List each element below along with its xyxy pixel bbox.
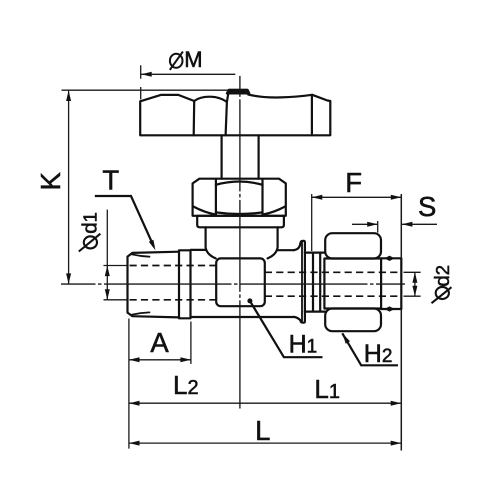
- svg-text:S: S: [418, 191, 436, 222]
- bonnet skirt: [206, 227, 278, 258]
- label phid1 diameter symbol: [79, 234, 101, 252]
- leader H2: [342, 333, 398, 365]
- arrowhead phid2 top: [412, 272, 417, 283]
- dimension L line: [129, 442, 401, 444]
- arrowhead K top: [66, 91, 71, 102]
- dimension A line: [129, 359, 191, 361]
- label phid1 text: [78, 212, 101, 234]
- leader H1 dot: [247, 298, 252, 303]
- svg-text:H2: H2: [364, 340, 393, 368]
- arrowhead A right: [180, 357, 191, 362]
- arrowhead S right: [402, 222, 413, 227]
- flange face line: [301, 243, 303, 322]
- compression nut bottom lobe: [325, 309, 381, 332]
- center square (seat): [216, 258, 265, 306]
- vertical centerline: [239, 76, 241, 301]
- arrowhead phiM: [141, 72, 152, 77]
- svg-text:1: 1: [79, 212, 100, 222]
- left thread collar: [179, 250, 191, 318]
- arrowhead S left: [367, 222, 378, 227]
- svg-text:K: K: [35, 171, 66, 190]
- right extension line: [400, 194, 402, 451]
- leader T: [95, 196, 154, 247]
- dimension phiM extension line: [140, 65, 142, 99]
- svg-text:2: 2: [432, 265, 453, 275]
- arrowhead L1 right: [391, 401, 402, 406]
- arrowhead L right: [391, 441, 402, 446]
- packing nut chamfer arcs: [193, 182, 285, 215]
- arrowhead F right: [391, 195, 402, 200]
- dimension S lines: [352, 223, 437, 225]
- svg-text:F: F: [345, 167, 362, 198]
- dimension phid2 extension lines: [404, 272, 421, 296]
- dimension F line: [312, 196, 402, 198]
- svg-text:L1: L1: [314, 374, 340, 404]
- male taper thread: [128, 252, 180, 318]
- dimension F extension line: [311, 194, 313, 251]
- threaded neck between body and nut: [305, 253, 326, 312]
- handle outline: [140, 90, 330, 135]
- arrowhead L2 left: [129, 401, 140, 406]
- dimension S extension line: [377, 221, 379, 233]
- horizontal centerline: [61, 283, 405, 285]
- arrowhead A left: [129, 357, 140, 362]
- arrowhead phid1 bottom: [105, 289, 110, 300]
- handle facet lines: [194, 95, 312, 135]
- thread runout arcs: [132, 254, 150, 314]
- body top/bottom edges: [191, 250, 294, 317]
- svg-text:A: A: [150, 327, 169, 358]
- compression nut mid band: [324, 259, 381, 309]
- dimension phid2 line: [414, 272, 416, 296]
- svg-text:L: L: [255, 415, 270, 446]
- hidden thread root line upper: [130, 265, 217, 267]
- compression nut top lobe: [325, 233, 381, 258]
- dimension L2/L1 line: [129, 402, 401, 404]
- arrowhead K bottom: [66, 273, 71, 284]
- washer: [197, 216, 284, 228]
- arrowhead L left: [129, 441, 140, 446]
- hidden bore line lower: [265, 295, 401, 297]
- tube stub: [381, 258, 401, 309]
- svg-text:d: d: [78, 222, 101, 233]
- arrowhead phid1 top: [105, 266, 110, 277]
- hidden thread root line lower: [130, 299, 217, 301]
- dimension K extension line: [62, 89, 229, 91]
- arrowhead F left: [312, 195, 323, 200]
- label phid2 diameter symbol: [432, 287, 452, 303]
- dimension phid1 extension lines: [104, 266, 128, 300]
- dimension K line: [68, 91, 70, 284]
- svg-text:T: T: [102, 164, 119, 195]
- svg-text:H1: H1: [289, 331, 318, 359]
- hidden bore line upper: [265, 271, 401, 273]
- arrowhead leader T: [149, 240, 156, 251]
- body right flange: [294, 241, 305, 323]
- handle boss: [227, 90, 249, 94]
- leader H1: [250, 301, 323, 357]
- label phid2 text: [431, 265, 454, 287]
- svg-text:d: d: [431, 275, 454, 286]
- label K: [35, 171, 66, 190]
- tube stub tick marks: [386, 256, 394, 311]
- dimension phid1 line: [106, 210, 108, 300]
- stem: [222, 135, 259, 178]
- vertical centerline lower extension: [239, 301, 241, 409]
- arrowhead phid2 bottom: [412, 286, 417, 297]
- dimension A extension lines: [129, 319, 191, 449]
- svg-text:L2: L2: [173, 370, 199, 400]
- stub right edge overlay: [400, 258, 402, 309]
- svg-text:M: M: [184, 47, 202, 72]
- label phiM diameter symbol: [170, 52, 183, 70]
- arrowhead leader H2: [343, 334, 351, 344]
- dimension phiM line: [141, 73, 235, 75]
- packing hex nut outline: [193, 179, 286, 216]
- packing nut facet lines: [216, 179, 263, 216]
